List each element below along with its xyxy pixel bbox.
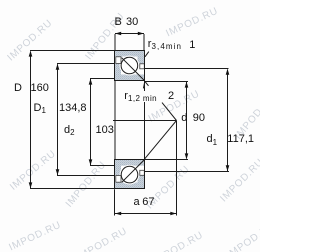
dimension D vertical line (30, 52, 32, 189)
ball (121, 166, 138, 183)
right notch (140, 170, 145, 175)
section body (115, 51, 145, 81)
arrow d1 up (226, 69, 230, 75)
contact line from top section (stub at corner) (145, 81, 149, 86)
extension line d top (145, 81, 189, 83)
watermark IMPOD.RU bottom-right (225, 220, 278, 252)
bottom bearing section (115, 160, 145, 189)
watermark IMPOD.RU top-left (6, 18, 55, 64)
dimension d2 vertical line (90, 79, 92, 165)
arrow B left (115, 32, 121, 36)
label r3,4min 1 (148, 39, 182, 50)
bore side line right between sections (144, 81, 146, 160)
outer ring band (115, 51, 145, 57)
arrow d down (185, 153, 189, 159)
ball (121, 57, 138, 74)
left notch (116, 57, 121, 64)
arrow d1 down (226, 165, 230, 171)
watermark IMPOD.RU bottom-mid (75, 226, 129, 252)
arrow D1 up (56, 64, 60, 70)
a extension line left (114, 189, 116, 215)
section outline (115, 51, 145, 81)
extension line d1 top (145, 68, 229, 70)
extension line d bottom (145, 159, 189, 161)
label B 30 (115, 17, 122, 28)
watermark IMPOD.RU right-edge (233, 91, 278, 141)
watermark IMPOD.RU top-right (164, 6, 220, 40)
arrow D down (29, 182, 33, 188)
arrow d up (185, 82, 189, 88)
arrow a right (170, 212, 176, 216)
label D 160 (14, 83, 22, 94)
watermark IMPOD.RU bottom-mid2 (151, 230, 205, 252)
arrow D up (29, 51, 33, 57)
watermark IMPOD.RU top-mid steep (84, 11, 127, 62)
dimension d vertical line (186, 82, 188, 159)
extension line D top (30, 50, 115, 52)
leader r1,2 (143, 82, 144, 88)
inner ring band (115, 75, 145, 81)
watermark IMPOD.RU centre-bottom (144, 164, 192, 212)
ball diagonal (122, 58, 145, 81)
left notch (116, 176, 121, 183)
arrowheads (29, 32, 230, 216)
a extension line right (pressure centre) (176, 121, 178, 216)
extension line d2 top (90, 78, 115, 80)
contact line from bottom section (145, 121, 177, 160)
watermark IMPOD.RU centre (147, 88, 202, 124)
watermark IMPOD.RU bottom-left (7, 220, 63, 252)
top bearing section (115, 51, 145, 81)
B dimension line (115, 33, 144, 35)
label D1 134,8 (34, 103, 47, 114)
arrow d2 up (89, 79, 93, 85)
extension line d1 bottom (145, 171, 230, 173)
label d2 103 (64, 125, 75, 136)
label d1 117,1 (207, 134, 218, 145)
outer ring right shoulder (138, 176, 145, 189)
bore side line left between sections (114, 81, 116, 160)
section body (115, 160, 145, 189)
contact line from top section (to pressure centre) (162, 103, 177, 121)
arrow B right (138, 32, 144, 36)
outer ring right shoulder (138, 51, 145, 64)
inner ring band (115, 160, 145, 166)
dimension d1 vertical line (227, 70, 229, 172)
label a 67 (134, 197, 140, 208)
extension line d2 bottom (90, 165, 115, 167)
centre line to pressure centre (113, 120, 177, 122)
watermark IMPOD.RU centre-low steep (64, 159, 109, 209)
watermark IMPOD.RU left-mid (8, 148, 58, 193)
right notch (140, 64, 145, 69)
a dimension line (115, 213, 177, 215)
B extension line right (143, 34, 145, 51)
ball pocket (120, 165, 140, 185)
label r1,2 min 2 (123, 91, 161, 102)
ball pocket (119, 56, 139, 76)
watermark IMPOD.RU right-low (218, 157, 266, 205)
ball diagonal (122, 160, 145, 183)
label d 90 (181, 113, 187, 124)
arrow d2 down (89, 159, 93, 165)
section outline (115, 160, 145, 189)
arrow D1 down (56, 169, 60, 175)
leader r3,4 (145, 52, 149, 57)
extension line D bottom (30, 188, 115, 190)
inner ring left shoulder (115, 160, 122, 176)
extension line D1 bottom (57, 175, 115, 177)
outer ring band (115, 183, 145, 189)
inner ring left shoulder (115, 64, 122, 81)
extension line D1 top (57, 63, 115, 65)
arrow a left (115, 212, 121, 216)
B extension line left (114, 34, 116, 51)
dimension D1 vertical line (57, 64, 59, 175)
